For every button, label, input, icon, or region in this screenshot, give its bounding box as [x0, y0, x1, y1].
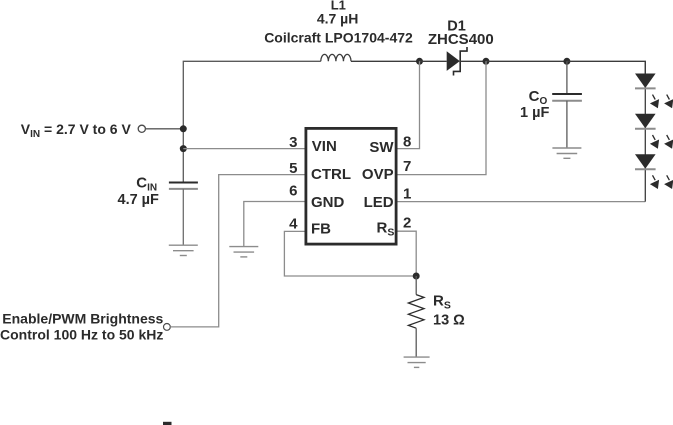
svg-text:VIN: VIN: [312, 138, 337, 155]
node: CO junction: [563, 58, 570, 65]
terminal: Enable/PWM input: [164, 324, 171, 331]
wire: pin 1 (LED) to LED string bottom: [398, 201, 646, 203]
capacitor CO: [552, 94, 582, 101]
label Enable/PWM Brightness Control 100 Hz to 50 kHz: [0, 310, 164, 342]
svg-text:SW: SW: [369, 139, 394, 156]
svg-text:4.7 µF: 4.7 µF: [118, 192, 160, 208]
terminal: VIN input: [138, 125, 145, 132]
ground (below CO): [552, 148, 581, 158]
svg-text:5: 5: [289, 160, 297, 177]
wire: top rail (OVP node to CO node): [486, 60, 567, 62]
wire: Enable terminal to pin 5: [170, 175, 304, 327]
svg-text:Enable/PWM Brightness: Enable/PWM Brightness: [2, 310, 163, 326]
svg-text:FB: FB: [311, 221, 331, 238]
node: OVP junction: [483, 58, 490, 65]
wire: pin 7 (OVP) to OVP node: [398, 61, 487, 174]
wire: pin 6 to ground: [244, 202, 305, 247]
resistor RS: [408, 295, 424, 329]
svg-text:GND: GND: [311, 194, 345, 211]
wire: pin 4 (FB) to sense node: [284, 231, 416, 276]
svg-text:4: 4: [289, 216, 298, 233]
svg-text:VIN = 2.7 V to 6 V: VIN = 2.7 V to 6 V: [21, 121, 132, 140]
svg-text:4.7 µH: 4.7 µH: [317, 11, 359, 27]
wire: CO bottom stub: [566, 101, 568, 148]
svg-text:13 Ω: 13 Ω: [433, 312, 465, 328]
svg-text:CIN: CIN: [136, 175, 157, 194]
wire: top rail (CO node to LED string): [567, 61, 645, 74]
LED D3 emission arrows: [650, 135, 673, 149]
wire: resistor RS to ground: [415, 328, 417, 357]
wire: top rail left segment (VIN column to inductor): [183, 61, 320, 182]
inductor L1: [321, 54, 351, 61]
wire: pin 2 (RS) to sense node: [398, 231, 417, 276]
ground (below RS): [404, 357, 430, 367]
wire: VIN terminal to node A: [145, 128, 183, 130]
svg-text:LED: LED: [364, 194, 394, 211]
wire: node B to pin 3: [183, 148, 304, 150]
wire: LED string column: [644, 61, 646, 201]
LED D4 emission arrows: [650, 175, 673, 189]
capacitor CIN: [169, 183, 198, 189]
svg-text:Control 100 Hz to 50 kHz: Control 100 Hz to 50 kHz: [0, 327, 163, 343]
wire: sense node to resistor RS: [415, 276, 417, 295]
ground (below GND pin): [229, 247, 258, 257]
svg-text:6: 6: [289, 183, 297, 200]
node A: VIN junction: [180, 125, 187, 132]
svg-text:1 µF: 1 µF: [520, 105, 549, 121]
wire: top rail (inductor to SW node): [351, 60, 420, 62]
LED D4: [635, 154, 656, 169]
node: SW junction: [416, 58, 423, 65]
node: sense junction: [413, 273, 420, 280]
op-amp/IC U1 box: [306, 128, 396, 244]
caption fragment (cut off at bottom edge): [163, 422, 172, 425]
diode D1 (schottky ZHCS400): [447, 47, 467, 76]
svg-text:RS: RS: [433, 292, 451, 311]
svg-text:ZHCS400: ZHCS400: [428, 31, 494, 48]
wire: SW node to diode anode: [420, 60, 447, 62]
svg-text:2: 2: [403, 215, 411, 232]
LED D3: [635, 114, 656, 129]
LED D2: [635, 74, 656, 89]
node B: pin3 junction: [180, 145, 187, 152]
LED D2 emission arrows: [650, 95, 673, 109]
ground (below CIN): [169, 245, 198, 255]
svg-text:1: 1: [403, 186, 411, 203]
svg-text:Coilcraft LPO1704-472: Coilcraft LPO1704-472: [264, 29, 413, 45]
svg-text:CTRL: CTRL: [311, 166, 351, 183]
svg-text:3: 3: [289, 134, 297, 151]
svg-text:OVP: OVP: [362, 166, 394, 183]
svg-text:7: 7: [403, 158, 411, 175]
svg-text:8: 8: [403, 134, 411, 151]
wire: CIN to ground: [182, 189, 184, 245]
wire: CO top stub: [566, 61, 568, 94]
wire: diode cathode to OVP node: [460, 60, 486, 62]
wire: pin 8 (SW) to SW node: [398, 61, 420, 148]
